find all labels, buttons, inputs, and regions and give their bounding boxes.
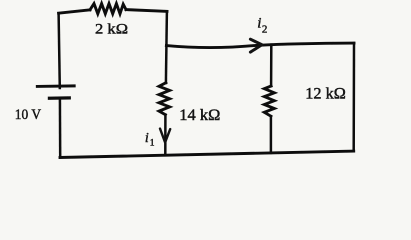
wire R2 bottom shaft to bottom rail	[164, 115, 167, 156]
svg-text:14 kΩ: 14 kΩ	[179, 107, 220, 124]
wire right vertical	[352, 43, 355, 151]
svg-text:i: i	[257, 15, 261, 31]
wire 12k branch top	[270, 45, 273, 86]
svg-text:12 kΩ: 12 kΩ	[305, 86, 346, 103]
wire middle-left vertical (node A down to R2)	[166, 11, 167, 83]
wire left vertical (top, to battery + plate)	[59, 13, 60, 88]
wire top-left horizontal segment	[59, 10, 90, 13]
svg-text:1: 1	[150, 139, 155, 149]
current arrow i1 head (down)	[160, 129, 170, 143]
resistor R2 14 kOhm zigzag	[159, 83, 170, 115]
wire 12k branch bottom	[270, 116, 273, 153]
wire middle horizontal (node A to right)	[166, 43, 354, 47]
svg-text:2: 2	[262, 24, 268, 36]
battery V1 top plate (long)	[37, 84, 74, 87]
resistor R1 2 kOhm zigzag	[90, 4, 126, 14]
svg-text:i: i	[145, 131, 149, 146]
wire bottom rail	[60, 151, 354, 157]
current arrow i2 head (right)	[250, 39, 262, 52]
resistor R3 12 kOhm zigzag	[264, 86, 274, 116]
wire top-right horizontal segment	[126, 10, 167, 12]
svg-text:10 V: 10 V	[15, 107, 41, 123]
svg-text:2 kΩ: 2 kΩ	[95, 20, 128, 37]
battery V1 bottom plate (short)	[49, 96, 69, 99]
wire left vertical (bottom, battery - to bottom rail)	[59, 98, 62, 157]
